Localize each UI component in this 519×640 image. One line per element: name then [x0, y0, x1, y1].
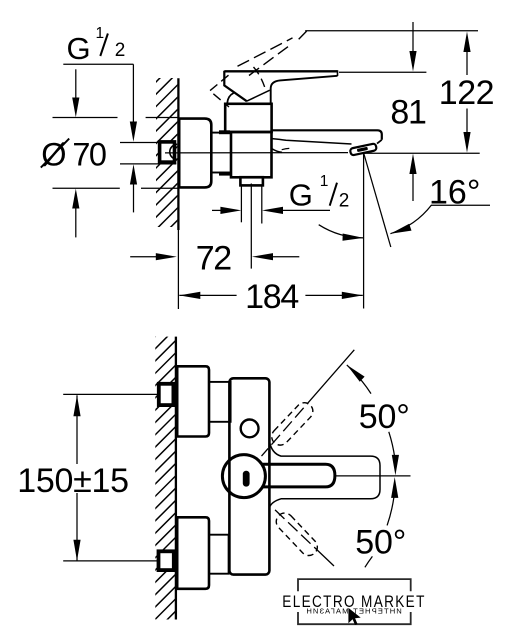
wall line (bottom view) [175, 337, 177, 620]
svg-text:Ø 70: Ø 70 [41, 137, 106, 173]
svg-text:184: 184 [245, 278, 298, 316]
G1/2 witness top [120, 142, 159, 144]
raised lever tip hook dash [299, 31, 307, 39]
shower outlet pipe wall right [261, 186, 263, 224]
G1/2 leader shelf and drop [63, 63, 133, 65]
wall extension line down to 184 dim [177, 230, 179, 309]
lever blade top (down position) [224, 70, 337, 72]
150 dim line lower [76, 493, 78, 561]
main body (top view) [231, 132, 272, 177]
aerator (mousseur) at spout tip [350, 143, 377, 155]
spout root lower curve [272, 149, 282, 153]
lower escutcheon flange (front view) [177, 517, 209, 589]
G1/2 arrow up [133, 184, 135, 212]
spout inner contour line [272, 139, 352, 144]
lever tip face [337, 70, 339, 76]
svg-text:72: 72 [196, 240, 232, 278]
81 dim upper arrow [412, 22, 414, 52]
watermark title [282, 593, 425, 612]
lever grip bar (bold) [261, 464, 335, 487]
16deg right arc [390, 205, 431, 234]
G1/2 outlet arrows [212, 209, 221, 211]
svg-text:122: 122 [439, 74, 494, 112]
184 dim [179, 292, 200, 299]
lower connector [209, 535, 229, 574]
svg-text:50°: 50° [359, 398, 410, 436]
clamp tab bottom [219, 172, 230, 176]
escutcheon flange (top view) [179, 119, 211, 188]
wall hatching (bottom view) [150, 312, 180, 640]
dia70 arrow up [75, 208, 77, 237]
dashed lever front face [254, 67, 266, 91]
svg-text:16°: 16° [429, 173, 480, 211]
clamp tab top [219, 130, 230, 134]
watermark subtitle (mirrored) [305, 607, 402, 616]
dashed lever back cap [210, 75, 229, 107]
upper G1/2 nut [159, 384, 174, 405]
lower inlet centerline / 150 witness [63, 560, 157, 562]
temperature ring [241, 420, 259, 438]
raised lever top reference line [305, 30, 478, 32]
lever underside and front drop [271, 76, 338, 103]
lower dashed spray arm [273, 510, 321, 559]
spout tip underside to aerator [377, 140, 382, 144]
G1/2 witness bottom [120, 163, 176, 165]
upper escutcheon flange (front view) [177, 366, 209, 436]
16deg leader shelf [431, 204, 490, 206]
72 dim [130, 256, 156, 258]
inlet pipe arc inside nut [170, 144, 178, 159]
wall hatching (top view) [151, 56, 182, 247]
G1/2 inlet nut (top view) [160, 142, 175, 162]
centerline right of lever [335, 475, 411, 477]
spout level line [365, 152, 480, 154]
centerline through inlet axis [165, 152, 348, 154]
lever back face [224, 71, 247, 102]
dashed lever (raised position) top edge [238, 38, 293, 66]
svg-text:2: 2 [339, 191, 350, 212]
svg-text:81: 81 [390, 94, 426, 132]
spout top line [272, 130, 382, 140]
lower swing diagonal (dash-dot) [262, 498, 334, 567]
svg-text:G: G [67, 31, 91, 66]
connector between flange and body [212, 133, 232, 173]
lever dome [222, 455, 265, 498]
svg-text:G: G [289, 178, 313, 213]
svg-text:50°: 50° [355, 524, 406, 562]
shower outlet pipe wall left [240, 186, 242, 223]
cartridge neck [225, 104, 271, 132]
50deg upper arc [347, 365, 371, 394]
lower G1/2 nut [159, 551, 174, 570]
lever silhouette (thin) [269, 441, 380, 507]
pivot dome arc [227, 93, 233, 103]
81 witness at lever top [339, 71, 426, 73]
122 dim lower arrow [466, 109, 468, 133]
spout underside stub [282, 148, 290, 149]
50deg lower arc [391, 477, 398, 498]
shower outlet collar [240, 177, 263, 185]
link from pivot to front drop [247, 90, 270, 101]
dia70 witness line bottom [53, 187, 120, 189]
dia70 witness line top [53, 117, 118, 119]
mouse cursor [348, 608, 360, 625]
81 dim lower arrow [412, 174, 414, 202]
svg-text:2: 2 [115, 40, 126, 61]
upper dashed spray arm [268, 399, 316, 448]
main body (front view) [229, 378, 269, 574]
svg-text:1: 1 [96, 25, 105, 42]
wall line (top view) [177, 78, 179, 230]
16deg slanted outlet line [364, 154, 391, 248]
svg-text:1: 1 [320, 173, 329, 190]
dashed lever lower edge [249, 45, 291, 76]
122 dim upper arrow [463, 32, 470, 53]
16deg left arc [319, 225, 364, 238]
watermark frame [298, 579, 411, 624]
spout tip vertical extension [363, 154, 365, 309]
pipe centerline [250, 184, 252, 269]
keyhole mark [243, 471, 250, 487]
upper swing diagonal (dash-dot) [262, 350, 355, 456]
dia70 arrow down [75, 69, 77, 98]
upper connector [209, 382, 231, 422]
150 dim line upper [76, 395, 78, 464]
svg-text:150±15: 150±15 [17, 462, 128, 500]
upper inlet centerline / 150 witness [63, 393, 157, 395]
